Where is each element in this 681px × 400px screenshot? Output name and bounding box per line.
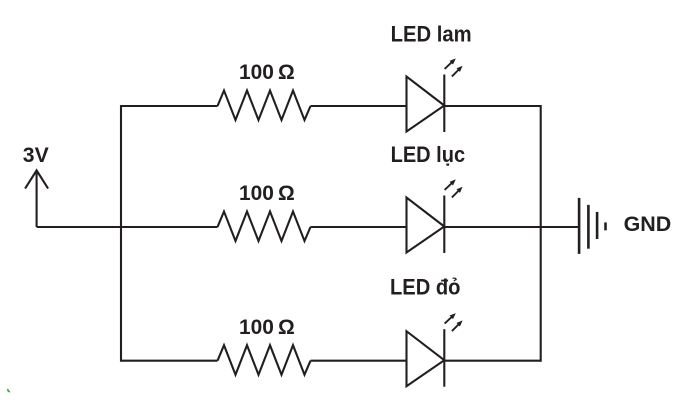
LED D3 red	[407, 313, 463, 387]
wire middle row resistor-to-LED	[311, 226, 407, 228]
svg-text:GND: GND	[624, 213, 672, 236]
ground symbol	[579, 198, 605, 254]
wire middle row cathode side	[444, 226, 540, 228]
wire bottom row cathode side	[444, 360, 540, 362]
svg-text:LED lam: LED lam	[391, 21, 472, 46]
wire middle row from source	[37, 226, 218, 228]
resistor R1	[218, 91, 311, 121]
svg-text:LED đỏ: LED đỏ	[390, 275, 461, 300]
wire left bus	[120, 105, 122, 362]
svg-text:100 Ω: 100 Ω	[239, 181, 295, 205]
resistor R3	[218, 345, 311, 375]
wire top row anode side	[121, 105, 218, 107]
svg-text:100 Ω: 100 Ω	[239, 315, 295, 339]
wire bottom row resistor-to-LED	[311, 360, 407, 362]
svg-text:LED lục: LED lục	[391, 142, 466, 167]
wire GND branch	[541, 226, 579, 228]
wire bottom row anode side	[121, 360, 218, 362]
svg-text:100 Ω: 100 Ω	[239, 60, 295, 84]
resistor R2	[218, 212, 311, 242]
wire top row resistor-to-LED	[311, 105, 407, 107]
wire right bus	[540, 105, 542, 362]
svg-text:3V: 3V	[23, 144, 49, 167]
wire top row cathode side	[444, 105, 540, 107]
source arrow 3V	[25, 170, 48, 227]
LED D1 blue	[407, 58, 463, 132]
stray green mark	[7, 389, 11, 393]
LED D2 green	[407, 179, 463, 253]
